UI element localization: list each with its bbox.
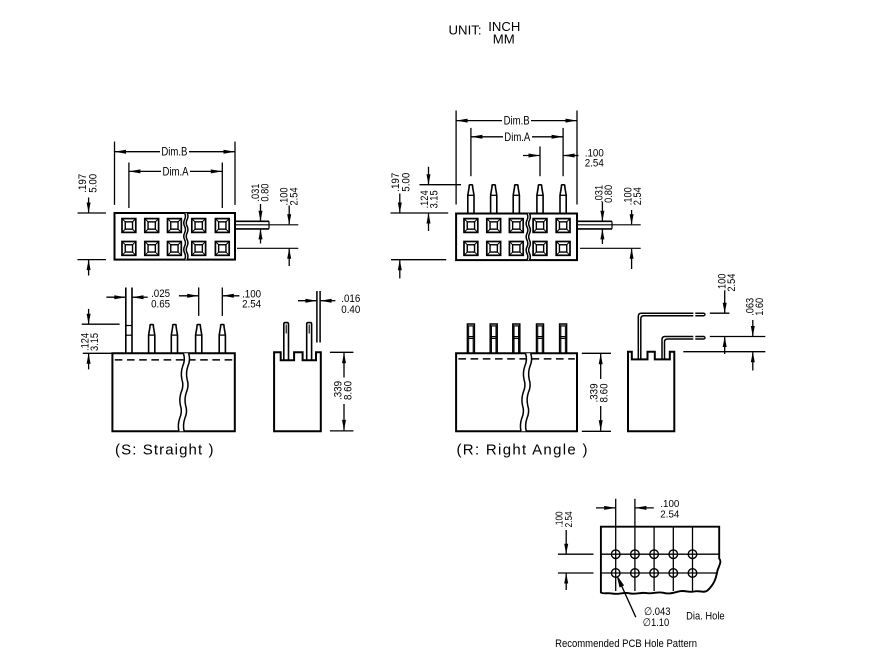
- pin exit right R: [577, 221, 612, 229]
- socket contact S r2c1: [122, 242, 136, 256]
- socket contact R r1c4: [533, 219, 547, 233]
- .100/2.54 pin pitch dim S: [179, 288, 240, 316]
- socket contact R r2c5: [556, 242, 570, 256]
- row extension lines left: [558, 554, 594, 573]
- Dim.A extension lines R: [471, 128, 563, 176]
- break line: [184, 213, 188, 260]
- break line front S: [178, 353, 189, 431]
- svg-text:∅1.10: ∅1.10: [643, 617, 670, 629]
- break line front R: [520, 353, 531, 431]
- svg-text:3.15: 3.15: [429, 190, 441, 208]
- pin break marks: [693, 311, 695, 318]
- row 1 centerline: [236, 224, 298, 226]
- hole r1c4: [669, 550, 678, 559]
- hidden line (dashed) R: [458, 358, 574, 360]
- svg-text:0.80: 0.80: [259, 184, 271, 202]
- .016/0.40 dim: [298, 299, 335, 303]
- body top extension line: [683, 351, 765, 353]
- break line: [526, 214, 530, 261]
- socket contact R r1c5: [556, 219, 570, 233]
- pin 3 front R: [513, 324, 520, 353]
- Dim.B dimension line R: [456, 119, 577, 123]
- svg-text:2.54: 2.54: [726, 274, 738, 292]
- svg-text:2.54: 2.54: [660, 508, 679, 520]
- hole r1c1: [611, 550, 620, 559]
- socket contact R r2c3: [509, 242, 523, 256]
- Dim.B extension lines R: [456, 111, 577, 205]
- upright pin 3: [513, 185, 519, 214]
- svg-text:(R: Right Angle ): (R: Right Angle ): [457, 442, 588, 459]
- Dim.A dimension line: [129, 169, 222, 173]
- .124/3.15 pin length dim: [420, 167, 462, 231]
- svg-text:0.65: 0.65: [151, 298, 170, 310]
- socket contact R r1c3: [509, 219, 523, 233]
- upright pin 4: [537, 185, 543, 214]
- pin A reference line: [710, 312, 730, 314]
- hole column line 3: [653, 527, 655, 591]
- socket contact S r2c5: [215, 242, 229, 256]
- row 2 centerline: [237, 247, 298, 249]
- .197/5.00 height dim R: [391, 194, 449, 279]
- hole r2c4: [669, 569, 678, 578]
- svg-text:Dim.B: Dim.B: [504, 114, 530, 128]
- .100/2.54 pin row pitch dim (side R): [723, 291, 727, 354]
- pin 5 front R: [560, 324, 567, 353]
- hole column line 1: [615, 499, 617, 591]
- svg-text:3.15: 3.15: [89, 333, 101, 351]
- socket contact R r1c2: [487, 219, 501, 233]
- Dim.B dimension line: [115, 150, 236, 154]
- hole column line 2: [634, 499, 636, 591]
- hole r1c5: [688, 550, 697, 559]
- socket contact S r2c3: [168, 242, 182, 256]
- upright pin 2: [491, 185, 497, 214]
- .100/2.54 row pitch dim: [287, 206, 291, 267]
- Dim.B extension lines: [115, 142, 236, 205]
- svg-text:Dim.B: Dim.B: [161, 145, 187, 159]
- svg-text:1.60: 1.60: [754, 298, 766, 316]
- hole r2c1: [611, 569, 620, 578]
- hole r2c5: [688, 569, 697, 578]
- Dim.A extension lines: [129, 163, 222, 209]
- pin 5 front S: [219, 325, 225, 354]
- svg-text:2.54: 2.54: [288, 188, 300, 206]
- Dim.A dimension line R: [471, 135, 563, 139]
- .031/0.80 pin thickness dim: [259, 204, 263, 244]
- hole column line 4: [672, 527, 674, 591]
- svg-text:2.54: 2.54: [632, 187, 644, 205]
- socket contact S r1c1: [122, 219, 136, 233]
- svg-text:(S: Straight ): (S: Straight ): [115, 442, 214, 459]
- svg-text:MM: MM: [493, 32, 515, 46]
- upright pin 5: [560, 185, 566, 214]
- .100/2.54 dim R right: [630, 210, 634, 269]
- svg-text:0.80: 0.80: [603, 185, 615, 203]
- .025/0.65 pin width dim: [106, 295, 147, 299]
- .339/8.60 body height dim R: [582, 353, 611, 431]
- svg-text:5.00: 5.00: [88, 174, 100, 193]
- svg-text:8.60: 8.60: [598, 384, 610, 403]
- row centerlines R: [578, 225, 641, 249]
- .031/0.80 dim R: [600, 202, 604, 244]
- hole row line 2: [601, 572, 717, 574]
- socket contact R r1c1: [464, 219, 478, 233]
- hole diameter leader: [618, 577, 636, 617]
- .100/2.54 hole pitch dim (top): [596, 506, 654, 510]
- pin 3 front S: [171, 325, 177, 354]
- svg-text:2.54: 2.54: [242, 298, 261, 310]
- PCB board outline (torn edges): [601, 527, 720, 594]
- hole r1c3: [650, 550, 659, 559]
- svg-text:UNIT:: UNIT:: [449, 24, 482, 38]
- socket contact R r2c4: [533, 242, 547, 256]
- pin B reference line: [710, 336, 766, 338]
- body outline top view R: [456, 214, 577, 261]
- body outline top view S: [115, 213, 236, 260]
- .100/2.54 pin pitch dim (top): [523, 146, 579, 176]
- right angle pin row A: [638, 313, 705, 359]
- pin 2 front S: [149, 325, 155, 354]
- side view right-angle body: [628, 352, 674, 432]
- .124/3.15 pin height dim S: [82, 309, 120, 370]
- side pin row A: [284, 323, 289, 361]
- svg-text:2.54: 2.54: [563, 511, 575, 527]
- side pin row B: [307, 323, 312, 361]
- svg-text:Dim.A: Dim.A: [504, 130, 530, 144]
- socket contact S r1c4: [192, 219, 206, 233]
- right angle pin row B: [662, 337, 705, 360]
- thin mating pin (.016): [317, 291, 320, 343]
- pin 4 front S: [196, 325, 202, 354]
- socket contact R r2c2: [487, 242, 501, 256]
- front view straight body: [112, 353, 234, 431]
- svg-text:8.60: 8.60: [343, 381, 355, 400]
- hole r1c2: [631, 550, 640, 559]
- socket contact S r1c3: [168, 219, 182, 233]
- .339/8.60 body height dim S: [330, 352, 354, 431]
- hole row line 1: [601, 553, 719, 555]
- socket contact S r2c4: [192, 242, 206, 256]
- pin 4 front R: [537, 324, 544, 353]
- socket contact R r2c1: [464, 242, 478, 256]
- socket contact S r1c2: [145, 219, 159, 233]
- front view right-angle body: [456, 353, 577, 431]
- svg-text:Recommended PCB Hole Pattern: Recommended PCB Hole Pattern: [555, 638, 697, 650]
- hole r2c2: [631, 569, 640, 578]
- .197/5.00 height dimension: [78, 198, 107, 276]
- hidden line (dashed): [115, 359, 233, 361]
- pin 1 front R: [467, 324, 474, 353]
- socket contact S r1c5: [215, 219, 229, 233]
- row pitch arrows: [564, 530, 568, 590]
- side view straight body: [274, 352, 321, 431]
- svg-text:2.54: 2.54: [585, 157, 604, 169]
- upright pin 1: [468, 185, 474, 214]
- pin 2 front R: [490, 324, 497, 353]
- pin exit right (top row): [235, 221, 269, 229]
- svg-text:Dim.A: Dim.A: [163, 164, 189, 178]
- .063/1.60 dim: [751, 320, 755, 371]
- svg-text:Dia. Hole: Dia. Hole: [686, 610, 725, 622]
- pin 1 (long, for thickness dim): [126, 288, 132, 354]
- socket contact S r2c2: [145, 242, 159, 256]
- hole r2c3: [650, 569, 659, 578]
- svg-text:5.00: 5.00: [400, 173, 412, 192]
- svg-text:0.40: 0.40: [341, 304, 360, 316]
- hole column line 5: [692, 527, 694, 591]
